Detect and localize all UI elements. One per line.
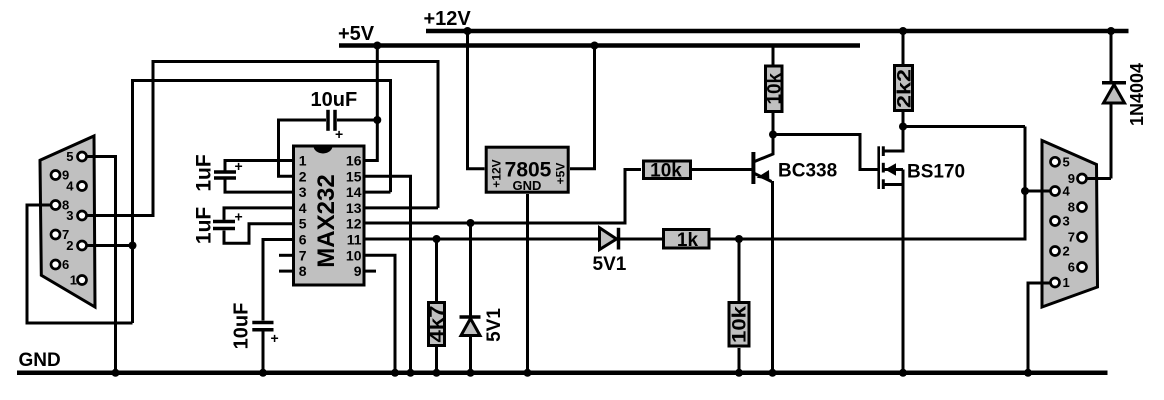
svg-text:9: 9 [62, 168, 69, 183]
svg-text:5V1: 5V1 [593, 254, 627, 275]
transistor Q1 BC338 base bar [751, 152, 755, 184]
svg-text:MAX232: MAX232 [313, 174, 340, 267]
svg-text:11: 11 [347, 232, 362, 248]
svg-text:9: 9 [354, 263, 362, 279]
diode D3 1N4004 wires [1110, 31, 1113, 81]
svg-text:8: 8 [299, 263, 307, 279]
svg-text:+5V: +5V [338, 23, 375, 45]
GND rail [17, 371, 1108, 376]
svg-text:2: 2 [1063, 244, 1070, 259]
wire X1 pin2 [82, 244, 133, 247]
svg-text:10k: 10k [730, 305, 751, 343]
wire B: diode to R 1k [618, 238, 662, 241]
svg-text:+: + [335, 126, 343, 142]
svg-text:6: 6 [1068, 260, 1075, 275]
svg-text:5: 5 [1063, 154, 1070, 169]
svg-text:7: 7 [299, 247, 307, 263]
junction Q1 collector node [769, 131, 777, 139]
capacitor C4 10uF bottom (pin 6 to GND) wires [263, 240, 292, 321]
U1 pin numbers right 16-9 [346, 153, 362, 280]
svg-text:+12V: +12V [424, 8, 472, 30]
wire 7805 output to +5V [570, 46, 595, 169]
X1 pin number labels [62, 149, 77, 288]
Q2 source wire [884, 183, 903, 186]
Q2 drain wire [884, 127, 903, 152]
X2 pin circles 5,4,3,2,1 [1051, 157, 1060, 166]
svg-text:+5V: +5V [554, 163, 568, 185]
Q2 body arrow wire [884, 168, 903, 171]
svg-text:12: 12 [346, 216, 362, 232]
diode D2 5V1 triangle [600, 228, 617, 250]
svg-text:+: + [235, 158, 243, 174]
junction pin10 at GND [391, 369, 399, 377]
wire U1 pin14 stub [365, 191, 391, 194]
junction pin16/C3 [373, 116, 381, 124]
svg-text:BC338: BC338 [778, 161, 837, 182]
X1 pin circles 5,4,3,2,1 [78, 152, 87, 161]
svg-text:2: 2 [299, 168, 307, 184]
svg-text:+: + [271, 330, 279, 346]
wire R3 to BC338 base [691, 168, 752, 171]
wire B: R 1k to output node column [710, 127, 1025, 240]
wire X2 pin9 to D3 [1082, 177, 1111, 180]
resistor R5 10K wires [738, 239, 741, 301]
wire output node to right connector [903, 125, 1025, 128]
svg-text:+: + [235, 209, 243, 225]
wire B: U1 pin11 to diode D2 [365, 238, 600, 241]
resistor R5 10K body [729, 303, 749, 347]
capacitor C1 1uF (pins 1-3) wires [225, 161, 292, 171]
svg-text:3: 3 [1063, 214, 1070, 229]
resistor R1 4K7 wires [435, 239, 438, 301]
D3 triangle [1104, 85, 1125, 104]
wire U1 pin10 to GND [365, 255, 395, 372]
svg-text:6: 6 [299, 232, 307, 248]
svg-text:GND: GND [513, 178, 542, 193]
resistor R2 1k body [664, 230, 710, 249]
Q2 body arrow [885, 163, 896, 176]
svg-text:5V1: 5V1 [484, 308, 505, 342]
U1 pin numbers left 1-8 [299, 153, 307, 280]
svg-text:7: 7 [62, 227, 69, 242]
junction C4 at GND [259, 369, 267, 377]
Q1 emitter to GND [771, 181, 774, 373]
resistor R4 10k body [766, 66, 783, 112]
svg-text:1N4004: 1N4004 [1127, 63, 1147, 126]
svg-text:14: 14 [346, 184, 362, 200]
svg-text:7: 7 [1068, 230, 1075, 245]
C3 plates [326, 110, 330, 131]
Q2 source to GND [902, 170, 905, 373]
C1 plates [214, 170, 236, 174]
transistor Q2 BS170 gate bar [877, 146, 880, 189]
junction +5V rail / 7805 output [591, 42, 599, 50]
svg-text:1: 1 [299, 153, 307, 169]
zener D1 cathode bar [460, 315, 481, 319]
wire X1 pin5 to GND drop [82, 157, 116, 373]
svg-text:1uF: 1uF [193, 207, 216, 245]
svg-text:8: 8 [1068, 200, 1075, 215]
wire X1 pin8 left route [27, 205, 133, 323]
Q1 collector [755, 135, 774, 162]
resistor R4 10k (collector) wires [772, 46, 775, 65]
wire X2 pin4 to output node [1025, 190, 1055, 193]
resistor R3 10k (base) body [644, 161, 691, 179]
zener D1 triangle [461, 319, 480, 336]
svg-text:10uF: 10uF [311, 89, 358, 111]
wire U1 pin13 stub [365, 206, 438, 209]
wire 7805 GND pin [526, 194, 529, 373]
junction wire B / 4K7 [433, 235, 441, 243]
svg-text:3: 3 [299, 184, 307, 200]
svg-text:13: 13 [346, 200, 362, 216]
IC U1 MAX232 body [294, 146, 365, 285]
junction wire A / zener branch [467, 219, 475, 227]
junction wire B / 10K [735, 235, 743, 243]
wire U1 pin16 to +5V [365, 46, 377, 161]
D2 cathode bar [617, 228, 621, 250]
U1 pin9 stub [365, 270, 376, 273]
svg-text:10uF: 10uF [231, 303, 253, 350]
junction output node / X2 pin4 [1021, 187, 1029, 195]
connector X1 left DB9 body [40, 136, 95, 307]
zener D1 5V1 wires [469, 223, 472, 316]
+12V rail [426, 29, 1129, 34]
svg-text:16: 16 [346, 153, 362, 169]
C4 plates [252, 321, 273, 325]
svg-text:5: 5 [299, 216, 307, 232]
+5V rail [339, 43, 860, 48]
svg-text:10: 10 [346, 247, 362, 263]
svg-text:1k: 1k [677, 230, 699, 251]
svg-text:15: 15 [346, 168, 362, 184]
junction 7805 GND at rail [524, 369, 532, 377]
svg-text:8: 8 [62, 198, 69, 213]
capacitor C2 1uF (pins 4-5) wires [224, 208, 292, 220]
svg-text:5: 5 [66, 149, 73, 164]
Q1 emitter arrow [757, 170, 770, 180]
wire 7805 input from +12V [468, 31, 485, 169]
X2 pin circles 9,8,7,6 [1078, 174, 1087, 183]
wire Q1 collector to Q2 gate [773, 135, 878, 170]
junction pin2 net [129, 242, 137, 250]
regulator U2 7805 body [486, 147, 568, 192]
U1 pin7 stub [279, 254, 292, 257]
junction pin15 at GND [407, 369, 415, 377]
svg-text:1uF: 1uF [193, 154, 216, 192]
junction pin16/+5V rail [373, 42, 381, 50]
svg-text:4: 4 [299, 200, 307, 216]
C2 plates [213, 220, 235, 224]
svg-text:10k: 10k [765, 73, 786, 105]
svg-text:9: 9 [1068, 171, 1075, 186]
svg-text:4k7: 4k7 [427, 306, 448, 343]
wire A: U1 pin12 to 10k base resistor [365, 170, 641, 224]
wire pins2+8 net vertical to MAX232 pin14 [133, 81, 391, 324]
resistor R6 2k2 body [895, 66, 913, 111]
X2 pin number labels [1063, 154, 1076, 290]
svg-text:GND: GND [19, 350, 61, 371]
U1 notch [314, 146, 333, 154]
svg-text:6: 6 [62, 257, 69, 272]
U1 pin8 stub [279, 270, 292, 273]
wire U1 pin15 to GND [365, 176, 411, 372]
wire X1 pin3 to MAX232 pin13 [82, 62, 438, 216]
Q2 channel segments [882, 146, 885, 156]
svg-text:BS170: BS170 [907, 162, 965, 183]
junction X1 pin5 wire at GND [112, 369, 120, 377]
resistor R6 2k2 wires [902, 31, 905, 66]
junction +12V rail / 7805 input [464, 27, 472, 35]
Q1 emitter [755, 174, 772, 182]
svg-text:10k: 10k [650, 161, 682, 182]
svg-text:2k2: 2k2 [895, 69, 916, 108]
svg-text:1: 1 [1063, 275, 1070, 290]
svg-text:1: 1 [70, 273, 77, 288]
wire X2 pin1 to GND [1028, 283, 1055, 373]
X1 pin circles 9,8,7,6 [51, 171, 60, 180]
connector X2 right DB9 body [1042, 141, 1098, 308]
capacitor C3 10uF top (pin2 to +5V) wires [279, 120, 327, 176]
resistor R1 4K7 body [429, 303, 445, 346]
junction Q2 drain node [899, 123, 907, 131]
svg-text:+12V: +12V [490, 159, 504, 187]
D3 cathode bar [1102, 81, 1126, 85]
